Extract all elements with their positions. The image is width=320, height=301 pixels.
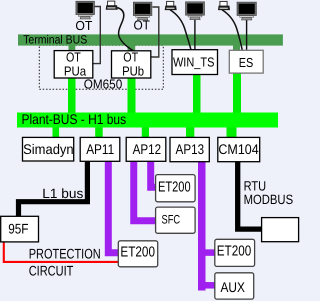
svg-text:OT: OT (123, 50, 138, 65)
wire: monitor 3 cable to WIN_TS (194, 19, 196, 50)
svg-text:OT: OT (75, 18, 92, 33)
monitor 1 (OT) (76, 1, 95, 19)
box ES (229, 50, 263, 73)
monitor 4 (237, 2, 256, 20)
svg-text:ET200: ET200 (120, 245, 155, 261)
wire: Plant-BUS stub to Simadyn (53, 126, 60, 138)
svg-text:ES: ES (239, 55, 254, 70)
svg-text:95F: 95F (8, 221, 28, 237)
wire: Plant-BUS stub to AP12 (142, 126, 149, 139)
svg-text:CIRCUIT: CIRCUIT (29, 263, 74, 279)
wire: monitor 2 cable to OT PUb (151, 7, 159, 57)
box ET200 bottom-left (118, 241, 157, 267)
wire: OT PUa to Plant-BUS (green) (68, 77, 76, 114)
svg-text:ET200: ET200 (217, 243, 252, 259)
wire: ES to Plant-BUS (green) (233, 73, 241, 114)
box AP11 (80, 137, 120, 161)
wire: WIN_TS to Plant-BUS (green) (193, 75, 201, 115)
wire: printer 2 cable to WIN_TS (170, 10, 191, 50)
wire: Terminal BUS stub to ES (233, 45, 240, 52)
box CM104 (218, 137, 260, 161)
wire: OT PUb to Plant-BUS (green) (128, 77, 136, 114)
svg-text:AP11: AP11 (86, 141, 114, 157)
box ET200 middle (156, 175, 196, 202)
box AP12 (126, 137, 166, 161)
OM650 group dotted rectangle (39, 45, 163, 89)
svg-text:AP12: AP12 (133, 141, 162, 157)
svg-text:Simadyn: Simadyn (23, 141, 74, 157)
svg-text:AP13: AP13 (176, 141, 205, 157)
Terminal BUS bar (18, 34, 283, 45)
svg-text:OM650: OM650 (84, 77, 123, 92)
wire: purple stub AP13 to ET200 right (202, 249, 215, 256)
box ET200 right (215, 239, 255, 266)
box RTU MODBUS unlabeled (262, 218, 299, 242)
box OT PUa (54, 50, 93, 79)
svg-text:WIN_TS: WIN_TS (173, 55, 215, 70)
wire: purple stub AP13 to AUX (202, 282, 215, 289)
printer 2 (165, 1, 177, 10)
wire: printer 3 cable to ES (222, 10, 242, 51)
wire: Plant-BUS stub to CM104 (227, 126, 237, 138)
box WIN_TS (172, 50, 218, 75)
wire: Plant-BUS stub to AP13 (186, 126, 194, 139)
wire: red protection circuit line (4, 242, 119, 262)
wire: RTU MODBUS black line from CM104 (238, 162, 262, 229)
wire: purple AP13 vertical (198, 162, 206, 291)
monitor 3 (186, 2, 205, 20)
svg-text:OT: OT (66, 50, 81, 65)
svg-text:L1 bus: L1 bus (42, 186, 83, 201)
box AUX (215, 273, 254, 299)
svg-text:Terminal BUS: Terminal BUS (23, 33, 87, 47)
box AP13 (170, 137, 209, 161)
wire: L1 bus black line from AP11 to 95F (19, 161, 88, 216)
wire: Terminal BUS stub to OT PUa (69, 45, 76, 52)
box 95F (1, 216, 39, 242)
wire: purple AP11 to ET200 bottom-left (108, 161, 118, 253)
svg-text:CM104: CM104 (218, 141, 258, 157)
monitor 2 (OT) (133, 2, 152, 20)
svg-text:PROTECTION: PROTECTION (29, 246, 101, 262)
box OT PUb (112, 50, 151, 79)
svg-text:PUb: PUb (122, 64, 144, 79)
svg-text:Plant-BUS - H1 bus: Plant-BUS - H1 bus (22, 111, 127, 127)
printer 1 (106, 1, 118, 10)
svg-text:SFC: SFC (162, 213, 181, 227)
wire: Plant-BUS stub to AP11 (95, 126, 103, 139)
Plant-BUS bar (17, 113, 278, 128)
box Simadyn (23, 137, 74, 161)
svg-text:ET200: ET200 (158, 180, 191, 196)
wire: monitor 1 cable to OT PUa (93, 7, 100, 64)
wire: purple AP12 left to SFC (134, 161, 156, 220)
wire: monitor 4 cable to ES (246, 19, 248, 51)
box SFC (156, 207, 196, 233)
wire: printer 1 cable to OT PUb (117, 8, 134, 52)
printer 3 (218, 1, 230, 10)
svg-text:MODBUS: MODBUS (244, 192, 294, 207)
svg-text:AUX: AUX (221, 279, 246, 295)
wire: purple AP12 right to ET200 middle (151, 161, 156, 187)
wire: Terminal BUS stub to OT PUb (128, 45, 136, 53)
svg-text:OT: OT (133, 18, 150, 33)
